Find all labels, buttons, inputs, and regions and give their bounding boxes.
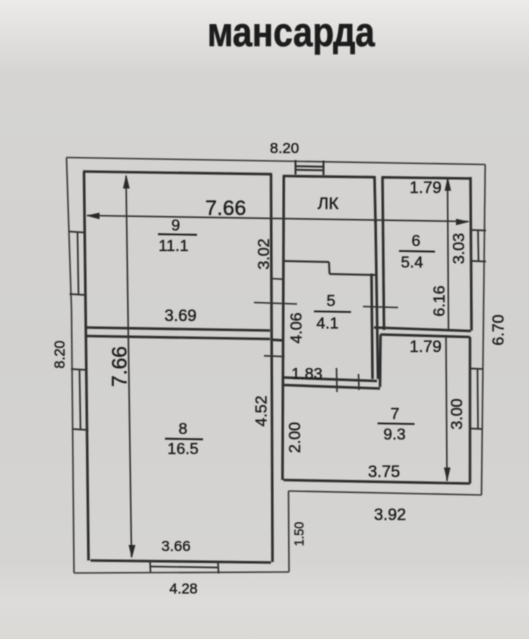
window W2 left wall top cap (71, 369, 88, 370)
svg-text:3.69: 3.69 (164, 307, 196, 325)
room 5 bottom wall lower line (284, 385, 381, 389)
arrowhead 1.79 room6 top (445, 177, 452, 191)
chimney left vertical (295, 160, 297, 175)
svg-text:1.83: 1.83 (291, 366, 322, 383)
room 6 right wall (471, 177, 472, 331)
svg-text:9: 9 (171, 218, 180, 235)
window W3 bottom wall right cap (217, 562, 220, 574)
room 7 right wall (469, 337, 472, 484)
svg-text:3.92: 3.92 (374, 506, 406, 524)
corridor right line (376, 220, 379, 380)
window W1 left wall bottom cap (70, 294, 87, 295)
svg-text:8.20: 8.20 (53, 340, 69, 368)
svg-text:7.66: 7.66 (108, 346, 131, 387)
divider wall left line (271, 174, 273, 563)
dim line 3.00 room7 vertical (446, 337, 447, 481)
svg-text:11.1: 11.1 (159, 238, 189, 255)
svg-text:8: 8 (179, 421, 188, 438)
svg-text:5: 5 (327, 293, 336, 310)
svg-text:6.70: 6.70 (491, 314, 508, 345)
outer contour step (288, 491, 291, 572)
svg-text:2.00: 2.00 (287, 422, 304, 453)
svg-text:6.16: 6.16 (432, 285, 449, 316)
arrowhead 7.66 V top (123, 174, 130, 188)
svg-text:9.3: 9.3 (383, 427, 405, 444)
stair step lower line (330, 274, 376, 275)
svg-text:7.66: 7.66 (205, 197, 246, 220)
window W4 room6 bottom cap (472, 260, 486, 263)
stair step upper line (284, 261, 330, 262)
arrowhead 7.66 H right (456, 219, 470, 225)
room 7 left stub wall (379, 335, 382, 388)
chimney upper line (296, 165, 324, 168)
window W2 middle line (80, 370, 81, 430)
divider lower line connector (271, 338, 284, 341)
dim line 7.66 vertical (126, 176, 132, 557)
room 5 bottom wall upper line (284, 378, 378, 382)
window W5 middle line (477, 369, 480, 429)
room 8 bottom wall (91, 561, 272, 563)
outer contour top (67, 158, 486, 165)
svg-text:1.50: 1.50 (293, 522, 307, 546)
room 9 bottom wall lower line (86, 336, 271, 339)
svg-text:3.75: 3.75 (368, 463, 400, 481)
room 7 top wall (381, 335, 471, 338)
svg-text:4.1: 4.1 (316, 316, 338, 333)
window W1 left wall top cap (69, 232, 86, 233)
svg-text:3.02: 3.02 (256, 238, 273, 269)
svg-text:4.52: 4.52 (254, 395, 271, 426)
tick on divider y356 (264, 355, 285, 358)
svg-text:3.00: 3.00 (449, 398, 466, 429)
arrowhead 3.00 room7 bottom (444, 468, 451, 482)
window W3 bottom wall left cap (149, 561, 152, 573)
window W2 left wall bottom cap (72, 429, 89, 430)
svg-text:4.28: 4.28 (169, 582, 197, 598)
arrowhead 7.66 V bottom (129, 545, 136, 559)
svg-text:3.03: 3.03 (451, 233, 468, 264)
window W5 room7 top cap (470, 368, 483, 371)
room 5 right wall (372, 274, 373, 380)
tick on divider y303 (254, 303, 297, 305)
divider wall right line (283, 175, 284, 480)
room 6 left wall (383, 177, 385, 330)
outer contour bottom-right (289, 491, 482, 495)
window W1 middle line (78, 232, 79, 295)
svg-text:1.79: 1.79 (409, 338, 441, 356)
window W5 room7 bottom cap (470, 428, 483, 431)
stair step vertical (328, 262, 331, 274)
dimension lines (87, 176, 469, 557)
top wall room 9 (83, 172, 272, 175)
room number fractions (158, 218, 435, 459)
dim line 7.66 horizontal (87, 216, 469, 222)
windows (69, 230, 487, 574)
tick on divider y279 (271, 278, 285, 281)
tick on corridor y307 (363, 307, 398, 308)
svg-text:ЛК: ЛК (317, 194, 338, 213)
room 6 bottom wall (374, 328, 471, 332)
top wall room 6 (382, 177, 471, 178)
window W4 room6 top cap (472, 229, 486, 232)
svg-text:4.06: 4.06 (288, 312, 305, 343)
svg-text:8.20: 8.20 (270, 140, 299, 157)
room 7 bottom wall (284, 480, 471, 484)
svg-text:мансарда: мансарда (207, 11, 375, 56)
left wall (84, 172, 89, 561)
window W4 middle line (477, 230, 480, 261)
svg-text:16.5: 16.5 (167, 441, 198, 458)
chimney right vertical (323, 161, 325, 176)
tick on room5 bottom wall x359 (358, 374, 361, 390)
room 9 bottom wall upper line (86, 328, 271, 331)
dim line 1.79 room6 vertical (448, 178, 449, 330)
svg-text:3.66: 3.66 (161, 538, 190, 555)
dimension labels (53, 140, 508, 598)
outer contour left (67, 158, 75, 574)
staircase right wall (375, 176, 376, 223)
outer contour bottom-left (74, 572, 289, 573)
svg-text:6: 6 (412, 233, 421, 250)
outer contour right (482, 165, 486, 496)
top wall staircase (284, 176, 376, 177)
arrowhead 7.66 H left (86, 213, 100, 220)
tick on room5 bottom wall x337 (336, 368, 339, 392)
svg-text:1.79: 1.79 (409, 179, 441, 197)
window W3 middle line (150, 567, 218, 568)
svg-text:5.4: 5.4 (401, 255, 423, 272)
chimney lower line (296, 169, 324, 172)
svg-text:7: 7 (391, 406, 400, 423)
